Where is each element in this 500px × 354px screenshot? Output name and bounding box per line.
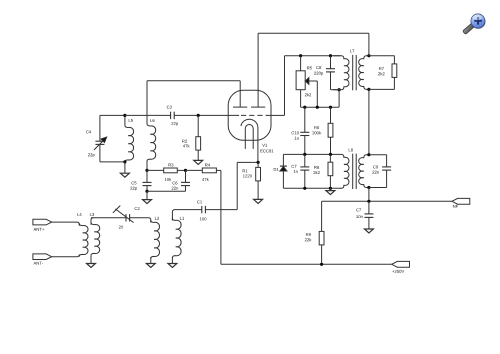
wire NF (322, 200, 452, 202)
node L8 sec bottom (367, 186, 370, 189)
wire anode to L7 (258, 33, 369, 55)
wire C4 top to L5 (100, 114, 125, 116)
potentiometer R5 2k2 (296, 56, 317, 107)
node pot top (299, 54, 302, 57)
inductor L3 (90, 213, 100, 256)
node L5 bottom (123, 160, 126, 163)
resistor R1 220 (243, 162, 261, 181)
wire cathode to node (237, 161, 258, 163)
ground below L1 (168, 257, 177, 267)
wire +250V rail (221, 263, 392, 265)
wire pot node (301, 106, 340, 108)
resistor R2 47k (182, 115, 200, 150)
node R9 bottom (320, 263, 323, 266)
wire L7 sec to L8 sec (368, 89, 370, 154)
node C10 top (303, 106, 306, 109)
tube V1 cathode (241, 119, 258, 162)
wire grid top (285, 55, 341, 57)
wire C5 to C6 bottom (147, 190, 186, 192)
capacitor C3 22p (167, 106, 178, 126)
ground below C7 10n (364, 217, 373, 233)
ground below C5 (143, 191, 152, 203)
capacitor C10 1u (292, 107, 310, 154)
ground below R2 (194, 150, 203, 164)
capacitor C7 10n (356, 201, 373, 218)
wire L8 sec to NF wire (368, 188, 370, 202)
node L7 sec bottom (367, 88, 370, 91)
label V1 ECC81 (260, 144, 273, 153)
inductor L1 (172, 210, 184, 258)
node R3 R4 (184, 169, 187, 172)
node L8 sec top (367, 153, 370, 156)
capacitor C5 22p (130, 170, 151, 191)
capacitor C8 220p (314, 56, 339, 90)
inductor L5 (125, 115, 134, 162)
inductor L4 (75, 213, 88, 257)
node C7 bottom (303, 187, 306, 190)
node wiper bottom (316, 106, 319, 109)
node L5 top (123, 114, 126, 117)
ground below R1 (254, 181, 263, 204)
wire grid riser (284, 56, 286, 116)
tube V1 right anode (251, 33, 265, 107)
wire ANT+ to L4 (52, 221, 75, 223)
inductor L6 (147, 81, 156, 171)
node C5 bottom (145, 190, 148, 193)
transformer L8 core (353, 154, 357, 189)
node C10 bottom (303, 153, 306, 156)
node cathode (257, 161, 260, 164)
resistor R4 47k (186, 164, 221, 181)
diode D1 (274, 154, 287, 188)
wire C1 riser to cathode node (236, 162, 238, 209)
node L7 sec top (367, 54, 370, 57)
wire C2 to L2 (130, 217, 149, 219)
wire detector bottom (283, 187, 341, 189)
node R6 top (329, 106, 332, 109)
wire C4 bottom to L5 (100, 161, 125, 163)
node C7b top (367, 200, 370, 203)
resistor R3 10k (147, 163, 186, 180)
tube V1 envelope (228, 90, 271, 140)
node L7 primary bottom (338, 88, 341, 91)
transformer L8 primary (341, 154, 350, 188)
connector +250V (392, 261, 410, 272)
zoom-in icon (463, 14, 486, 35)
wire ANT- to L4 (52, 256, 75, 258)
node grid R2 (197, 114, 200, 117)
capacitor C9 22n (369, 155, 391, 188)
tube V1 grid dashed (241, 114, 271, 116)
transformer L7 secondary (350, 50, 369, 90)
tube V1 left anode (233, 81, 247, 107)
capacitor C7 1n (292, 154, 310, 188)
connector ANT+ (33, 219, 52, 231)
resistor R8 2k2 (313, 154, 332, 188)
capacitor C1 100 (175, 200, 237, 220)
resistor R9 22k (305, 201, 324, 264)
connector NF (452, 198, 470, 207)
node L6 bottom (145, 169, 148, 172)
wire R4 riser to +250V rail (220, 170, 222, 264)
wire grid line left (125, 114, 171, 116)
wire C3 to grid (174, 114, 239, 116)
trimmer capacitor C2 20p (113, 206, 140, 229)
transformer L8 secondary (349, 148, 369, 187)
inductor L2 (148, 217, 159, 259)
node R8 bottom (329, 187, 332, 190)
wire L7 bottom riser (338, 90, 340, 108)
resistor R7 2k2 (369, 56, 397, 90)
wire grid right (271, 114, 285, 116)
wire L3 to C2 (91, 217, 126, 219)
node C8 top (329, 54, 332, 57)
ground below L2 (146, 257, 155, 267)
wire anode feedback top (147, 80, 240, 82)
connector ANT- (33, 254, 52, 265)
variable capacitor C4 22p (86, 115, 107, 161)
ground below R8 (326, 188, 335, 194)
capacitor C6 22n (172, 170, 190, 191)
ground below L5 (120, 162, 129, 177)
node R6 bottom (329, 153, 332, 156)
ground below L3 (87, 256, 96, 268)
resistor R6 100k (312, 107, 333, 154)
wire detector top (283, 153, 340, 155)
transformer L7 core (353, 55, 357, 90)
transformer L7 primary (333, 56, 349, 90)
